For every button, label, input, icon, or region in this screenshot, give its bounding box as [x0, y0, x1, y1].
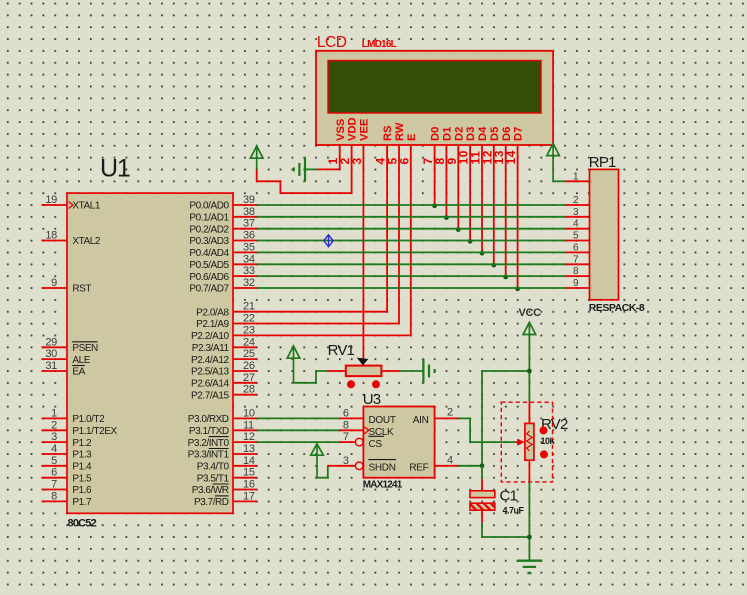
svg-text:6: 6	[51, 467, 57, 479]
svg-text:P1.5: P1.5	[72, 473, 92, 484]
wire power to RP1 pin 1	[553, 180, 566, 182]
LCD pin 10 D3 label	[465, 127, 477, 141]
U1 value label 80C52	[68, 518, 97, 530]
svg-text:39: 39	[243, 194, 255, 206]
capacitor C1	[470, 491, 495, 510]
wire P3.0 to U3 DOUT	[257, 417, 364, 419]
U3 pin 8 SCLK	[343, 419, 394, 438]
svg-text:MAX1241: MAX1241	[363, 480, 403, 491]
LCD screen	[328, 61, 541, 114]
wire U3 AIN to RV2 wiper	[458, 418, 515, 442]
svg-text:LMD16L: LMD16L	[362, 39, 397, 50]
ADC U3 body	[363, 407, 434, 478]
svg-text:P2.5/A13: P2.5/A13	[191, 367, 229, 378]
svg-text:D0: D0	[430, 127, 442, 141]
junction node D1/P0.1	[444, 215, 449, 220]
svg-text:SHDN: SHDN	[369, 463, 396, 474]
U3 pin 2 AIN	[413, 406, 459, 426]
svg-text:80C52: 80C52	[68, 518, 97, 530]
RV2 reference label	[541, 416, 568, 433]
svg-text:19: 19	[45, 194, 57, 206]
RP1 pin 3	[566, 207, 590, 218]
svg-text:EA: EA	[72, 367, 85, 378]
svg-text:RV1: RV1	[328, 342, 355, 359]
wire RV2 bottom to ground	[528, 482, 530, 561]
wire LCD pin 3 column	[362, 145, 364, 365]
wire LCD pin 9 column	[457, 145, 459, 229]
svg-text:4: 4	[51, 443, 57, 455]
U3 pin 6 DOUT	[343, 407, 396, 426]
svg-text:7: 7	[573, 254, 579, 265]
potentiometer RV1 body	[346, 366, 382, 377]
RP1 pin 8	[566, 266, 590, 277]
svg-text:P2.2/A10: P2.2/A10	[191, 331, 229, 342]
wire LCD pin 12 column	[493, 145, 495, 264]
wire P0.5 to RP1 pin 7	[257, 263, 566, 265]
wire P0.7 to RP1 pin 9	[257, 287, 566, 289]
svg-text:AIN: AIN	[413, 415, 429, 426]
svg-text:ALE: ALE	[72, 355, 90, 366]
wire P3.1 to U3 SCLK	[257, 429, 364, 431]
svg-text:P1.1/T2EX: P1.1/T2EX	[72, 426, 117, 437]
LCD value label LMD16L	[362, 39, 397, 50]
RP1 reference label	[589, 154, 616, 171]
svg-text:3: 3	[573, 207, 579, 218]
LCD pin 5 number	[386, 157, 400, 164]
svg-text:P2.4/A12: P2.4/A12	[191, 355, 229, 366]
U1 pin 8 P1.7	[42, 490, 93, 508]
RP1 pin 1	[566, 171, 590, 182]
RP1 value label RESPACK-8	[589, 302, 645, 314]
svg-text:21: 21	[243, 301, 255, 313]
wire RV1 pin 3 to ground	[381, 370, 422, 372]
svg-text:P1.6: P1.6	[72, 485, 92, 496]
LCD reference label	[317, 34, 347, 51]
svg-text:27: 27	[243, 372, 255, 384]
svg-text:32: 32	[243, 277, 255, 289]
svg-text:P0.6/AD6: P0.6/AD6	[189, 272, 229, 283]
svg-text:8: 8	[573, 266, 579, 277]
LCD pin 12 D5 label	[489, 127, 501, 141]
wire P3.2 to U3 CS	[257, 441, 356, 443]
svg-text:29: 29	[45, 336, 57, 348]
ground symbol right of RV1	[423, 359, 434, 384]
RV1 wiper arrow	[357, 358, 369, 366]
svg-text:25: 25	[243, 348, 255, 360]
U1 pin 34 P0.5/AD5	[189, 253, 256, 271]
svg-text:1: 1	[573, 171, 579, 182]
svg-text:2: 2	[573, 195, 579, 206]
U1 pin 7 P1.6	[42, 479, 93, 497]
U1 pin 13 P3.3/INT1	[188, 443, 257, 461]
svg-text:10: 10	[243, 407, 255, 419]
LCD pin 7 number	[421, 157, 435, 164]
svg-text:2: 2	[447, 406, 453, 418]
svg-text:LCD: LCD	[317, 34, 347, 51]
svg-text:RS: RS	[382, 125, 394, 141]
LCD pin 7 D0 label	[430, 127, 442, 141]
LCD pin 2 number	[338, 157, 352, 164]
RV2 wiper arrow	[516, 439, 525, 446]
LCD pin 3 number	[350, 157, 364, 164]
svg-text:P3.0/RXD: P3.0/RXD	[188, 414, 229, 425]
LCD pin 4 number	[374, 157, 388, 164]
svg-text:34: 34	[243, 253, 255, 265]
junction node D5/P0.5	[491, 263, 496, 268]
U1 reference label	[100, 155, 130, 183]
svg-text:P3.7/RD: P3.7/RD	[194, 497, 229, 508]
LCD pin 10 number	[457, 150, 471, 165]
svg-text:9: 9	[573, 278, 579, 289]
wire P0.0 to RP1 pin 2	[257, 204, 566, 206]
svg-text:12: 12	[243, 431, 255, 443]
power arrow for RP1 pin 1	[547, 143, 560, 181]
svg-text:2: 2	[51, 419, 57, 431]
C1 value label 4.7uF	[503, 506, 525, 516]
LCD display LCD1 body	[316, 51, 553, 145]
wire LCD pin 6 column	[410, 145, 412, 335]
ground symbol bottom	[517, 561, 542, 573]
potentiometer RV2 body	[525, 423, 534, 460]
power arrow for LCD VDD	[250, 146, 263, 169]
U1 pin 21 P2.0/A8	[196, 301, 257, 319]
U1 pin 25 P2.4/A12	[191, 348, 257, 366]
U1 pin 32 P0.7/AD7	[189, 277, 256, 295]
U1 pin 14 P3.4/T0	[197, 455, 257, 473]
svg-text:XTAL1: XTAL1	[72, 201, 100, 212]
svg-text:D4: D4	[477, 126, 489, 141]
LCD pin 14 number	[504, 150, 518, 165]
svg-text:C1: C1	[500, 488, 518, 505]
wire P0.1 to RP1 pin 3	[257, 216, 566, 218]
VCC label	[519, 307, 542, 319]
svg-text:35: 35	[243, 241, 255, 253]
svg-text:D2: D2	[453, 127, 465, 141]
junction node D3/P0.3	[468, 239, 473, 244]
svg-text:P2.6/A14: P2.6/A14	[191, 379, 229, 390]
svg-text:17: 17	[243, 490, 255, 502]
svg-text:23: 23	[243, 324, 255, 336]
junction node VCC branch	[527, 369, 532, 374]
junction node D7/P0.7	[515, 286, 520, 291]
origin marker on P0.3 wire	[324, 235, 333, 247]
svg-text:P1.4: P1.4	[72, 462, 92, 473]
wire LCD VSS to ground	[306, 168, 340, 170]
svg-text:U3: U3	[363, 391, 381, 408]
wire P0.2 to RP1 pin 4	[257, 228, 566, 230]
resistor pack RP1 body	[590, 169, 619, 299]
wire LCD pin 1 column	[339, 145, 341, 169]
U3 pin 7 CS	[343, 431, 384, 450]
wire power arrow to RV1 pin 1	[294, 371, 346, 383]
wire LCD pin 14 column	[517, 145, 519, 288]
svg-text:28: 28	[243, 384, 255, 396]
svg-text:9: 9	[51, 277, 57, 289]
LCD pin 1 number	[326, 157, 340, 164]
svg-text:D7: D7	[513, 127, 525, 141]
wire VCC down to RV2	[528, 335, 530, 403]
svg-text:P0.7/AD7: P0.7/AD7	[189, 284, 229, 295]
svg-text:36: 36	[243, 230, 255, 242]
junction node REF/C1	[480, 463, 485, 468]
svg-text:37: 37	[243, 218, 255, 230]
junction node C1/ground rail	[527, 535, 532, 540]
RP1 pin 4	[566, 219, 590, 230]
microcontroller U1 body	[67, 193, 233, 513]
svg-text:REF: REF	[409, 463, 428, 474]
LCD pin 4 RS label	[382, 125, 394, 141]
svg-text:15: 15	[243, 467, 255, 479]
RV2 value label 10k	[541, 436, 556, 446]
U1 pin 26 P2.5/A13	[191, 360, 257, 378]
svg-text:26: 26	[243, 360, 255, 372]
svg-text:33: 33	[243, 265, 255, 277]
wire LCD pin 8 column	[445, 145, 447, 217]
RV2 drag marker dots	[540, 426, 549, 458]
svg-text:6: 6	[397, 157, 411, 164]
LCD pin 8 number	[433, 157, 447, 164]
svg-text:E: E	[406, 133, 418, 141]
U1 pin 6 P1.5	[42, 467, 93, 485]
svg-text:4: 4	[447, 454, 453, 466]
wire C1 node down to C1	[481, 466, 483, 491]
wire U3 REF to C1 node	[458, 465, 482, 467]
svg-text:P3.3/INT1: P3.3/INT1	[188, 450, 230, 461]
wire P0.4 to RP1 pin 6	[257, 251, 566, 253]
LCD pin 9 D2 label	[453, 127, 465, 141]
svg-text:6: 6	[573, 242, 579, 253]
U3 value label MAX1241	[363, 480, 403, 491]
wire LCD pin 13 column	[505, 145, 507, 276]
svg-text:D5: D5	[489, 127, 501, 141]
U1 pin 5 P1.4	[42, 455, 93, 473]
svg-text:P2.7/A15: P2.7/A15	[191, 390, 229, 401]
svg-text:3: 3	[350, 157, 364, 164]
junction node D4/P0.4	[480, 251, 485, 256]
svg-text:10k: 10k	[541, 436, 556, 446]
power arrow for U3 SHDN	[311, 444, 324, 478]
wire P2.2 to LCD E	[257, 334, 412, 336]
wire power arrow to U3 SHDN	[317, 466, 355, 478]
wire P0.3 to RP1 pin 5	[257, 240, 566, 242]
LCD pin 9 number	[445, 157, 459, 164]
svg-text:VCC: VCC	[519, 307, 542, 319]
svg-text:P3.1/TXD: P3.1/TXD	[189, 426, 229, 437]
wire LCD pin 11 column	[481, 145, 483, 252]
LCD pin 6 number	[397, 157, 411, 164]
U1 pin 35 P0.4/AD4	[189, 241, 256, 259]
svg-text:CS: CS	[369, 439, 383, 450]
svg-text:DOUT: DOUT	[369, 415, 396, 426]
U1 pin 37 P0.2/AD2	[189, 218, 256, 236]
svg-text:D1: D1	[441, 127, 453, 141]
svg-text:RP1: RP1	[589, 154, 616, 171]
svg-text:P0.4/AD4: P0.4/AD4	[189, 248, 229, 259]
LCD pin 12 number	[480, 150, 494, 165]
junction node D6/P0.6	[503, 275, 508, 280]
svg-text:RESPACK-8: RESPACK-8	[589, 302, 645, 314]
U1 pin 23 P2.2/A10	[191, 324, 257, 342]
svg-text:22: 22	[243, 313, 255, 325]
svg-text:P1.2: P1.2	[72, 438, 92, 449]
svg-text:P0.5/AD5: P0.5/AD5	[189, 260, 229, 271]
svg-text:14: 14	[504, 150, 518, 165]
svg-text:D6: D6	[501, 127, 513, 141]
LCD pin 1 VSS label	[335, 118, 347, 141]
U1 pin 36 P0.3/AD3	[189, 230, 256, 248]
svg-text:7: 7	[51, 479, 57, 491]
svg-text:XTAL2: XTAL2	[72, 236, 100, 247]
U1 pin 19 XTAL1	[42, 194, 101, 212]
svg-text:RW: RW	[394, 122, 406, 141]
LCD pin 6 E label	[406, 133, 418, 141]
svg-text:4.7uF: 4.7uF	[503, 506, 525, 516]
U1 pin 9 RST	[42, 277, 92, 295]
wire LCD pin 5 column	[398, 145, 400, 324]
LCD pin 13 D6 label	[501, 127, 513, 141]
U1 pin 29 PSEN	[42, 336, 99, 354]
LCD pin 2 VDD label	[347, 117, 359, 141]
svg-text:5: 5	[573, 231, 579, 242]
wire LCD pin 7 column	[434, 145, 436, 205]
svg-text:5: 5	[51, 455, 57, 467]
wire LCD pin 2 column	[351, 145, 353, 193]
power arrow VCC	[523, 322, 536, 336]
wire VCC branch to C1 column	[482, 371, 529, 466]
U1 pin 4 P1.3	[42, 443, 93, 461]
selection box around RV2	[501, 402, 552, 482]
svg-text:18: 18	[45, 230, 57, 242]
power arrow for RV1 left terminal	[287, 346, 300, 383]
LCD pin 5 RW label	[394, 122, 406, 141]
U1 pin 22 P2.1/A9	[196, 313, 257, 331]
RV2 bottom pin wire	[528, 460, 530, 482]
U3 reference label	[363, 391, 381, 408]
svg-text:38: 38	[243, 206, 255, 218]
svg-text:RST: RST	[72, 284, 91, 295]
svg-text:30: 30	[45, 348, 57, 360]
svg-text:P3.2/INT0: P3.2/INT0	[188, 438, 230, 449]
U1 pin 33 P0.6/AD6	[189, 265, 256, 283]
svg-text:P2.0/A8: P2.0/A8	[196, 307, 229, 318]
svg-text:16: 16	[243, 479, 255, 491]
U1 pin 17 P3.7/RD	[194, 490, 257, 508]
U1 pin 39 P0.0/AD0	[189, 194, 256, 212]
U1 pin 11 P3.1/TXD	[189, 419, 257, 437]
U1 pin 1 P1.0/T2	[42, 407, 106, 425]
svg-text:P1.7: P1.7	[72, 497, 92, 508]
svg-text:11: 11	[243, 419, 254, 431]
wire P2.1 to LCD RW	[257, 323, 400, 325]
RP1 pin 7	[566, 254, 590, 265]
LCD pin 11 number	[469, 151, 483, 165]
svg-text:VSS: VSS	[335, 118, 347, 141]
svg-text:VDD: VDD	[347, 117, 359, 141]
svg-text:24: 24	[243, 336, 255, 348]
U1 pin 38 P0.1/AD1	[189, 206, 256, 224]
U3 pin 3 SHDN	[343, 455, 396, 474]
wire power arrow to LCD VDD	[257, 169, 352, 193]
svg-text:P2.1/A9: P2.1/A9	[196, 319, 229, 330]
U1 pin 31 EA	[42, 360, 86, 378]
svg-text:P3.5/T1: P3.5/T1	[197, 473, 230, 484]
svg-text:P3.4/T0: P3.4/T0	[197, 462, 230, 473]
C1 reference label	[500, 488, 518, 505]
svg-text:4: 4	[573, 219, 579, 230]
wire P2.0 to LCD RS	[257, 311, 388, 313]
LCD pin 11 D4 label	[477, 126, 489, 141]
wire LCD pin 4 column	[386, 145, 388, 312]
svg-text:3: 3	[51, 431, 57, 443]
svg-text:14: 14	[243, 455, 255, 467]
svg-text:P1.0/T2: P1.0/T2	[72, 414, 105, 425]
LCD pin 8 D1 label	[441, 127, 453, 141]
U1 pin 16 P3.6/WR	[192, 479, 257, 497]
svg-text:P0.0/AD0: P0.0/AD0	[189, 201, 229, 212]
junction node D0/P0.0	[432, 203, 437, 208]
U1 pin 2 P1.1/T2EX	[42, 419, 118, 437]
U1 pin 27 P2.6/A14	[191, 372, 257, 390]
svg-text:P0.3/AD3: P0.3/AD3	[189, 236, 229, 247]
U1 pin 30 ALE	[42, 348, 91, 366]
LCD pin 13 number	[492, 150, 506, 165]
svg-text:1: 1	[51, 407, 57, 419]
U1 pin 28 P2.7/A15	[191, 384, 257, 402]
U1 pin 18 XTAL2	[42, 230, 101, 248]
LCD pin 14 D7 label	[513, 127, 525, 141]
RV1 drag marker dots	[347, 380, 380, 388]
U1 pin 10 P3.0/RXD	[188, 407, 257, 425]
RP1 pin 2	[566, 195, 590, 206]
RV2 top pin wire	[528, 402, 530, 423]
RP1 pin 6	[566, 242, 590, 253]
svg-text:8: 8	[51, 490, 57, 502]
RP1 pin 9	[566, 278, 590, 289]
svg-text:P1.3: P1.3	[72, 450, 92, 461]
svg-text:U1: U1	[100, 155, 130, 183]
U3 pin 4 REF	[409, 454, 458, 473]
svg-text:P2.3/A11: P2.3/A11	[192, 343, 230, 354]
wire LCD pin 10 column	[469, 145, 471, 241]
U1 pin 15 P3.5/T1	[197, 467, 257, 485]
ground symbol near LCD	[294, 157, 305, 182]
RV1 reference label	[328, 342, 355, 359]
svg-text:P0.2/AD2: P0.2/AD2	[189, 224, 229, 235]
svg-text:P3.6/WR: P3.6/WR	[192, 485, 229, 496]
svg-text:31: 31	[45, 360, 57, 372]
wire P0.6 to RP1 pin 8	[257, 275, 566, 277]
wire C1 bottom to ground rail	[482, 510, 529, 537]
junction node D2/P0.2	[456, 227, 461, 232]
U1 pin 3 P1.2	[42, 431, 93, 449]
RP1 pin 5	[566, 231, 590, 242]
U1 pin 24 P2.3/A11	[192, 336, 257, 354]
U1 pin 12 P3.2/INT0	[188, 431, 257, 449]
LCD pin 3 VEE label	[358, 118, 370, 141]
svg-text:13: 13	[243, 443, 255, 455]
svg-text:D3: D3	[465, 127, 477, 141]
svg-text:P0.1/AD1: P0.1/AD1	[189, 213, 229, 224]
svg-text:VEE: VEE	[358, 118, 370, 141]
svg-text:PSEN: PSEN	[72, 343, 98, 354]
